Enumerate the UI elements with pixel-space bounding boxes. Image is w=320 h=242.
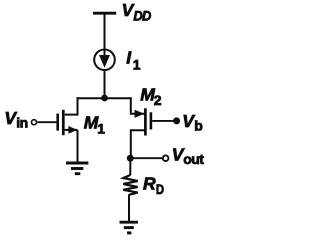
svg-text:out: out [183, 151, 204, 167]
label M2 [140, 85, 162, 109]
wire VDD bar to current source [104, 13, 106, 48]
transistor M1 gate bar [56, 114, 59, 131]
wire M1 gate [37, 121, 56, 123]
svg-text:R: R [143, 174, 156, 194]
terminal Vout (open circle) [163, 155, 169, 161]
transistor M1 channel bar [62, 110, 65, 135]
transistor M2 gate bar [150, 112, 153, 129]
svg-text:D: D [156, 181, 164, 197]
current source I1 [94, 50, 115, 71]
wire drain bus [77, 97, 131, 99]
wire M2 drain riser [131, 130, 145, 158]
transistor M2 source arrow [135, 110, 145, 118]
node junction dot [101, 95, 108, 102]
wire M1 drain riser [65, 97, 78, 114]
svg-text:1: 1 [97, 120, 105, 136]
svg-text:2: 2 [154, 92, 162, 108]
svg-text:in: in [16, 114, 28, 130]
svg-text:1: 1 [133, 57, 141, 73]
label RD [143, 174, 164, 198]
wire to Vout terminal [130, 157, 162, 159]
terminal Vin (open circle) [32, 120, 37, 125]
wire Vout node to resistor [129, 158, 131, 175]
label M1 [84, 113, 106, 137]
label Vin [4, 108, 27, 130]
node Vout junction dot [127, 155, 134, 162]
wire resistor to ground [128, 195, 130, 223]
transistor M1 source tap with arrow [65, 129, 78, 131]
svg-text:b: b [194, 118, 203, 134]
ground bottom [120, 222, 139, 233]
ground under M1 [66, 163, 88, 174]
transistor M2 channel bar [144, 108, 147, 135]
wire M2 source riser [131, 97, 144, 114]
label Vout [172, 144, 205, 167]
terminal Vb (filled dot) [173, 117, 180, 124]
VDD supply bar [93, 12, 116, 15]
label I1 [126, 47, 141, 72]
label Vb [182, 111, 203, 134]
wire current source to node [104, 71, 106, 98]
resistor RD [123, 175, 137, 195]
wire M2 gate [152, 120, 174, 122]
svg-text:DD: DD [133, 7, 151, 23]
wire M1 source riser [77, 130, 79, 163]
label VDD [122, 0, 152, 23]
